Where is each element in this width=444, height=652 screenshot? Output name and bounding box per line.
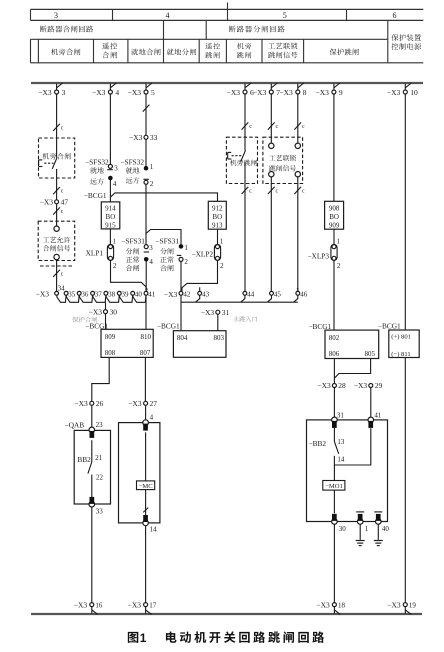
label -QAB <box>65 420 85 429</box>
svg-text:−X3: −X3 <box>128 600 142 609</box>
svg-text:−MC: −MC <box>139 483 154 490</box>
terminal -X3:18 <box>316 600 345 614</box>
terminal -X3:42 <box>179 291 191 299</box>
wire 805 merge <box>334 359 370 379</box>
header row line <box>31 38 388 40</box>
contact circle 工艺允许 top <box>54 226 59 231</box>
pushbutton box 机旁合闸 <box>39 138 75 178</box>
label -BCG1 right1 <box>308 322 331 331</box>
svg-text:−BCG1: −BCG1 <box>84 191 107 200</box>
signal box 工艺联锁跳闸信号 <box>263 137 303 183</box>
svg-text:−X3: −X3 <box>387 600 401 609</box>
label -BCG1 mid <box>157 321 180 330</box>
svg-text:1: 1 <box>220 237 224 245</box>
test link XLP1 <box>86 244 117 270</box>
terminal 33 <box>89 497 103 515</box>
svg-text:−X3: −X3 <box>74 399 88 408</box>
svg-text:c: c <box>249 124 252 130</box>
terminal -X3:16 <box>74 600 103 614</box>
svg-text:806: 806 <box>329 350 340 358</box>
wire 806 to -X3:28 <box>333 359 335 384</box>
label -BCG1 left <box>85 321 108 330</box>
wire col10 lower <box>404 358 406 603</box>
mark x above 46 <box>296 286 299 292</box>
terminal -X3:41 <box>144 291 156 299</box>
wire col7 lower <box>270 177 272 292</box>
header cell 断路器合闸回路 <box>40 26 93 33</box>
svg-text:44: 44 <box>247 291 255 299</box>
label 工艺联锁跳闸信号2 <box>269 155 296 172</box>
terminal -X3:47 <box>40 198 69 207</box>
terminal -X3:44 <box>243 291 255 299</box>
wire col3 upper <box>56 94 58 138</box>
svg-text:−MO1: −MO1 <box>325 483 343 490</box>
svg-text:3: 3 <box>114 165 118 173</box>
wire col8 lower <box>297 177 299 292</box>
svg-text:913: 913 <box>212 222 223 230</box>
connector c col3-2 <box>53 187 64 195</box>
header column divider <box>227 3 229 22</box>
wire 912 to XLP2 <box>218 229 224 245</box>
svg-text:5: 5 <box>151 88 155 97</box>
wire MC upper <box>145 432 147 481</box>
svg-text:30: 30 <box>339 525 347 533</box>
svg-text:43: 43 <box>202 291 210 299</box>
terminal -X3:27 <box>128 399 157 408</box>
header cell 就地合闸 <box>131 49 160 56</box>
svg-text:c: c <box>276 189 279 195</box>
svg-text:−X3: −X3 <box>164 290 178 299</box>
terminal -X3:36 <box>77 291 89 299</box>
terminal -X3:43 <box>198 291 210 299</box>
svg-text:42: 42 <box>183 291 191 299</box>
wire SFS32a to 914 <box>109 180 111 202</box>
wire 914 to XLP1 <box>110 229 116 246</box>
svg-text:−XLP2: −XLP2 <box>192 250 214 259</box>
selector switch SFS32-b <box>120 157 153 188</box>
terminal 14 <box>143 515 157 533</box>
svg-text:c: c <box>61 125 64 131</box>
svg-text:−X3: −X3 <box>201 308 215 317</box>
wire MC to 17 <box>145 526 147 603</box>
svg-text:21: 21 <box>95 454 103 462</box>
svg-text:c: c <box>61 189 64 195</box>
caption title <box>166 631 324 642</box>
svg-text:809: 809 <box>105 333 116 341</box>
header cell 工艺联锁跳闸信号 <box>268 43 297 59</box>
terminal -X3:45 <box>270 291 282 299</box>
header row3 dividers <box>31 20 388 62</box>
svg-text:−BCG1: −BCG1 <box>157 321 180 330</box>
wire col3 lower <box>56 260 58 292</box>
header cell 机旁合闸 <box>51 48 80 55</box>
label -BCG1 col4 <box>84 191 107 200</box>
terminal -X3:3 <box>38 83 65 97</box>
contact 41 <box>368 411 382 428</box>
svg-text:1: 1 <box>150 163 154 171</box>
wire 31 to 803 <box>217 314 219 330</box>
svg-text:4: 4 <box>115 88 119 97</box>
svg-text:22: 22 <box>96 473 104 481</box>
svg-text:−X3: −X3 <box>74 600 88 609</box>
connector c col3-4 <box>53 270 64 278</box>
svg-text:−X3: −X3 <box>253 88 267 97</box>
svg-text:−X3: −X3 <box>279 88 293 97</box>
label -X3 strip2 <box>164 290 178 299</box>
relay box BCG1 802/806/805 <box>325 330 379 358</box>
contactor box MC <box>119 423 160 523</box>
svg-text:−X3: −X3 <box>40 198 54 207</box>
label 机旁合闸 <box>43 153 71 160</box>
connector c col8-2 <box>294 187 305 195</box>
bottom bus (-) <box>31 613 422 615</box>
terminal -X3:38 <box>104 291 116 299</box>
svg-text:34: 34 <box>58 285 66 293</box>
wire col5 to SFS31 <box>145 184 147 244</box>
terminal -X3:19 <box>387 600 416 614</box>
contact circle col7 top <box>269 143 274 148</box>
svg-text:8: 8 <box>303 88 307 97</box>
svg-text:38: 38 <box>108 291 116 299</box>
selector switch SFS32-a <box>85 157 118 188</box>
svg-text:2: 2 <box>184 258 188 266</box>
trip jumper bus <box>181 295 298 302</box>
wire MO1 lower <box>333 490 335 513</box>
svg-text:41: 41 <box>374 411 382 419</box>
wire BB2 to MO1 <box>334 455 345 480</box>
connector c col3-1 <box>53 124 64 132</box>
svg-text:9: 9 <box>339 88 343 97</box>
svg-text:−SFS32: −SFS32 <box>85 157 109 166</box>
svg-text:805: 805 <box>365 350 376 358</box>
svg-text:c: c <box>61 271 64 277</box>
svg-text:c: c <box>302 124 305 130</box>
wire 27 to MC box <box>145 406 147 423</box>
svg-text:−X3: −X3 <box>92 88 106 97</box>
svg-text:31: 31 <box>337 411 345 419</box>
svg-text:BO: BO <box>212 213 222 221</box>
svg-text:1: 1 <box>365 525 369 533</box>
terminal 23 <box>89 421 103 438</box>
svg-text:13: 13 <box>337 438 345 446</box>
svg-text:−BCG1: −BCG1 <box>378 322 401 331</box>
svg-text:5: 5 <box>283 11 287 20</box>
svg-text:4: 4 <box>166 11 170 20</box>
svg-text:39: 39 <box>122 291 130 299</box>
svg-text:19: 19 <box>409 601 417 609</box>
terminal -X3:10 <box>387 83 418 97</box>
relay box BCG1 912/BO/913 <box>208 201 226 229</box>
contact blade BB2-b <box>334 442 338 454</box>
pushbutton box 机旁跳闸 <box>226 137 257 183</box>
svg-text:41: 41 <box>148 291 156 299</box>
contact circle col8 bottom <box>295 172 300 177</box>
wire SFS31b to 42 <box>180 261 182 291</box>
svg-text:1: 1 <box>184 244 188 252</box>
terminal -X3:33 <box>129 133 158 142</box>
contact circle col8 top <box>295 143 300 148</box>
svg-text:45: 45 <box>274 291 282 299</box>
svg-text:912: 912 <box>212 204 223 212</box>
connector c col6-1 <box>242 122 253 130</box>
svg-text:915: 915 <box>105 222 116 230</box>
operation box MO1 <box>307 420 388 522</box>
svg-text:XLP1: XLP1 <box>86 248 104 257</box>
svg-text:16: 16 <box>95 601 103 609</box>
header cell 遥控合闸 <box>102 43 117 59</box>
wire XLP2 to 42 <box>182 260 218 291</box>
jumper links 34-41 <box>57 295 146 302</box>
svg-text:(−) 811: (−) 811 <box>391 351 410 358</box>
svg-text:808: 808 <box>105 349 116 357</box>
stub above 43 <box>199 287 201 291</box>
branch fork to SFS31-b <box>146 230 181 245</box>
terminal -X3:40 <box>131 291 143 299</box>
coil MC <box>137 481 155 490</box>
svg-text:−X3: −X3 <box>387 88 401 97</box>
wire col5 upper <box>145 94 147 135</box>
svg-text:4: 4 <box>113 180 117 188</box>
svg-text:914: 914 <box>105 204 116 212</box>
svg-text:4: 4 <box>149 258 153 266</box>
svg-text:47: 47 <box>61 198 69 207</box>
signal box 工艺允许合闸信号 <box>38 221 74 266</box>
terminal -X3:34 <box>55 285 65 296</box>
svg-text:−SFS31: −SFS31 <box>121 237 145 246</box>
svg-text:807: 807 <box>140 349 151 357</box>
header cell 遥控跳闸 <box>205 43 220 59</box>
svg-text:c: c <box>276 124 279 130</box>
svg-text:46: 46 <box>300 291 308 299</box>
svg-text:909: 909 <box>329 222 340 230</box>
svg-text:−X3: −X3 <box>38 88 52 97</box>
wire col6 upper <box>244 94 246 137</box>
terminal -X3:28 <box>317 381 346 390</box>
svg-text:6: 6 <box>393 11 397 20</box>
svg-text:33: 33 <box>96 507 104 515</box>
branch wire col4 to 912 <box>110 193 217 201</box>
wire 30 to 809 <box>105 314 107 330</box>
label BB2 <box>77 454 102 464</box>
svg-text:17: 17 <box>149 601 157 609</box>
svg-text:BO: BO <box>106 213 116 221</box>
svg-text:1: 1 <box>140 631 147 645</box>
connector c col7-2 <box>268 187 279 195</box>
svg-text:−X3: −X3 <box>315 88 329 97</box>
label 机旁跳闸 <box>230 159 257 165</box>
svg-text:10: 10 <box>410 88 418 97</box>
svg-text:2: 2 <box>113 262 117 270</box>
contact 31 <box>332 411 345 428</box>
svg-text:−SFS31: −SFS31 <box>155 237 179 246</box>
svg-text:BO: BO <box>329 213 339 221</box>
header cell 断路器分闸回路 <box>229 26 285 33</box>
svg-text:−X3: −X3 <box>354 381 368 390</box>
svg-text:31: 31 <box>222 308 230 317</box>
svg-text:2: 2 <box>220 262 224 270</box>
svg-text:3: 3 <box>54 11 58 20</box>
terminal -X3:9 <box>315 83 342 97</box>
relay box BCG1 908/BO/909 <box>325 201 344 229</box>
wire 808 to -X3:26 <box>92 357 109 401</box>
selector switch SFS31-a <box>121 237 153 272</box>
svg-text:−X3: −X3 <box>316 600 330 609</box>
label 保护合闸 <box>72 317 97 323</box>
wire 26 to QAB <box>91 406 93 431</box>
relay box BCG1 809/810/808/807 <box>101 329 153 357</box>
svg-text:18: 18 <box>338 601 346 609</box>
svg-text:27: 27 <box>150 399 158 408</box>
test link XLP2 <box>192 244 225 270</box>
wire 29 down <box>370 388 372 421</box>
terminal -X3:39 <box>117 291 129 299</box>
svg-text:−X3: −X3 <box>36 290 50 299</box>
terminal 4 <box>143 413 154 430</box>
breaker box QAB <box>74 430 110 504</box>
label 永跳入口 <box>233 316 257 322</box>
ground 40 <box>374 524 383 546</box>
wire col6 lower <box>244 184 246 292</box>
wire QAB to 16 <box>91 507 93 603</box>
terminal -X3:17 <box>128 600 157 614</box>
terminal -X3:8 <box>279 83 306 97</box>
power box BCG1 801/811 <box>389 330 419 358</box>
svg-text:BB2: BB2 <box>77 455 91 464</box>
terminal -X3:29 <box>354 381 383 390</box>
svg-text:30: 30 <box>110 307 118 316</box>
label -X3 strip <box>36 290 50 299</box>
terminal -X3:5 <box>128 83 155 97</box>
svg-text:23: 23 <box>96 421 104 429</box>
terminal -X3:35 <box>64 291 76 299</box>
svg-text:804: 804 <box>177 334 188 342</box>
label -BCG1 right2 <box>378 322 401 331</box>
wire 30 to 18 <box>333 524 335 603</box>
wire 41 branch <box>334 428 370 465</box>
svg-text:1: 1 <box>337 237 341 245</box>
wire col10 upper <box>404 94 406 330</box>
svg-text:−X3: −X3 <box>129 133 143 142</box>
header bottom line <box>31 62 424 64</box>
svg-text:2: 2 <box>337 262 341 270</box>
wire 807 to -X3:27 <box>144 357 146 401</box>
svg-text:−X3: −X3 <box>128 399 142 408</box>
svg-text:c: c <box>302 189 305 195</box>
terminal -X3:46 <box>296 291 308 299</box>
svg-text:4: 4 <box>150 413 154 421</box>
label 工艺允许合闸信号 <box>43 237 71 252</box>
wire MC lower <box>145 490 147 516</box>
wire col7 upper <box>270 94 272 143</box>
terminal -X3:4 <box>92 83 119 97</box>
svg-text:−X3: −X3 <box>317 381 331 390</box>
svg-text:3: 3 <box>62 88 66 97</box>
svg-text:−BB2: −BB2 <box>309 439 327 448</box>
header cell 保护装置控制电源 <box>391 34 420 50</box>
selector switch SFS31-b <box>155 237 188 272</box>
wire col3 mid <box>56 178 58 200</box>
wire 28 down <box>333 388 335 442</box>
release arrow MC <box>143 508 148 513</box>
svg-text:(+) 801: (+) 801 <box>391 334 411 341</box>
wire col8 upper <box>297 94 299 143</box>
svg-text:802: 802 <box>329 334 340 342</box>
svg-text:14: 14 <box>337 455 345 463</box>
terminal -X3:7 <box>253 83 280 97</box>
wire XLP3 to 802 <box>333 260 335 330</box>
connector slash col5 <box>143 105 150 112</box>
svg-text:−BCG1: −BCG1 <box>308 322 331 331</box>
top bus (+) <box>31 82 423 84</box>
wire 42 to 804 <box>180 295 182 331</box>
header cell 机旁跳闸 <box>237 43 251 59</box>
wire SFS31a to 41 <box>145 262 147 292</box>
svg-text:803: 803 <box>214 334 225 342</box>
svg-text:40: 40 <box>135 291 143 299</box>
contact blade BB2-a <box>88 462 92 474</box>
svg-text:−SFS32: −SFS32 <box>120 157 144 166</box>
svg-text:c: c <box>61 209 64 215</box>
svg-text:37: 37 <box>95 291 103 299</box>
coil MO1 <box>323 481 345 491</box>
svg-text:−X3: −X3 <box>128 88 142 97</box>
ground 1 <box>356 524 365 546</box>
svg-text:−X3: −X3 <box>89 307 103 316</box>
header row2 dividers <box>164 20 207 62</box>
relay box BCG1 914/BO/915 <box>101 202 120 230</box>
wire 41 to 810 <box>145 295 147 329</box>
svg-text:29: 29 <box>375 381 383 390</box>
connector c col6-2 <box>242 187 253 195</box>
terminal -X3:37 <box>91 291 103 299</box>
svg-text:2: 2 <box>150 180 154 188</box>
svg-text:14: 14 <box>150 525 158 533</box>
wire QAB lower <box>92 473 104 497</box>
svg-text:c: c <box>249 189 252 195</box>
connector c col3-3 <box>53 207 64 215</box>
svg-text:810: 810 <box>141 333 152 341</box>
header cell 就地分闸 <box>167 49 196 56</box>
svg-text:−X3: −X3 <box>227 88 241 97</box>
connector c col7-1 <box>268 122 279 130</box>
svg-text:−XLP3: −XLP3 <box>307 252 329 261</box>
wire XLP1 to 41 <box>111 260 147 291</box>
wire 33 to SFS32b <box>145 140 147 167</box>
wire QAB upper <box>91 440 93 462</box>
pushbutton SF2 contact <box>228 137 246 183</box>
caption 图1 <box>128 631 147 645</box>
mark x above 41 <box>146 286 149 292</box>
terminal -X3:30 <box>89 307 118 316</box>
svg-text:28: 28 <box>338 381 346 390</box>
svg-text:33: 33 <box>150 133 158 142</box>
wire 908 to XLP3 <box>334 229 341 245</box>
contact circle 工艺允许 bottom <box>54 254 59 259</box>
wire col4 <box>109 94 111 164</box>
test link XLP3 <box>307 244 340 270</box>
connector c col8-1 <box>294 122 305 130</box>
svg-text:36: 36 <box>81 291 89 299</box>
pushbutton SF1 contact <box>39 138 58 178</box>
svg-text:26: 26 <box>96 399 104 408</box>
ground contact 1 <box>356 512 369 533</box>
label -BB2 <box>309 438 345 448</box>
terminal -X3:6 <box>227 83 254 97</box>
wire col9 upper <box>333 94 335 201</box>
header cell 保护跳闸 <box>330 48 359 55</box>
svg-text:908: 908 <box>329 204 340 212</box>
ground contact 40 <box>374 512 389 533</box>
